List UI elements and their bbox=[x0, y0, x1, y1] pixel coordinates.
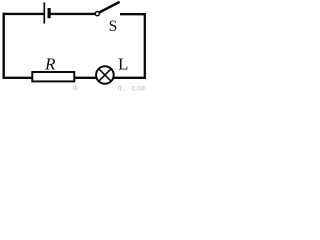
wire resistor to lamp bbox=[75, 77, 97, 79]
watermark (decorative) bbox=[73, 84, 146, 94]
wire top-right segment bbox=[120, 13, 146, 15]
lamp L bbox=[96, 66, 114, 84]
svg-text:m: m bbox=[73, 84, 78, 91]
resistor R bbox=[32, 72, 74, 81]
svg-text:g. com: g. com bbox=[117, 85, 146, 92]
svg-text:S: S bbox=[109, 18, 118, 35]
wire top-left segment bbox=[3, 13, 45, 15]
wire left vertical bbox=[3, 13, 5, 79]
svg-text:L: L bbox=[118, 55, 128, 74]
switch S bbox=[95, 2, 119, 16]
battery cell bbox=[44, 2, 49, 23]
wire right vertical bbox=[144, 13, 146, 79]
wire bottom-left segment bbox=[3, 77, 33, 79]
wire battery to switch bbox=[51, 13, 96, 15]
wire lamp to right bbox=[114, 77, 146, 79]
svg-text:R: R bbox=[44, 55, 56, 74]
